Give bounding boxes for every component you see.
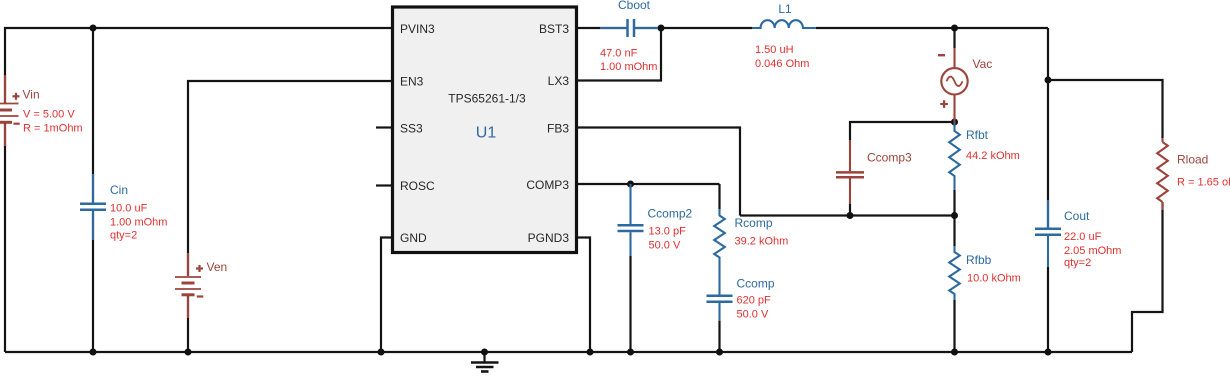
svg-text:39.2 kOhm: 39.2 kOhm: [735, 236, 789, 248]
svg-text:ROSC: ROSC: [400, 179, 435, 193]
svg-text:Ven: Ven: [207, 260, 228, 274]
svg-text:PVIN3: PVIN3: [400, 22, 435, 36]
svg-text:47.0 nF: 47.0 nF: [600, 48, 638, 60]
svg-text:COMP3: COMP3: [526, 178, 569, 192]
svg-text:620 pF: 620 pF: [737, 295, 772, 307]
svg-text:2.05 mOhm: 2.05 mOhm: [1064, 245, 1121, 257]
svg-text:EN3: EN3: [400, 75, 424, 89]
svg-text:10.0 kOhm: 10.0 kOhm: [967, 273, 1021, 285]
svg-text:Ccomp: Ccomp: [737, 277, 775, 291]
svg-text:22.0 uF: 22.0 uF: [1064, 231, 1102, 243]
svg-text:10.0 uF: 10.0 uF: [110, 203, 148, 215]
svg-text:Cboot: Cboot: [618, 0, 651, 12]
svg-text:50.0 V: 50.0 V: [737, 309, 769, 321]
svg-text:1.50 uH: 1.50 uH: [755, 44, 794, 56]
svg-text:LX3: LX3: [548, 74, 570, 88]
svg-text:BST3: BST3: [539, 22, 569, 36]
svg-text:44.2 kOhm: 44.2 kOhm: [966, 150, 1020, 162]
svg-text:R = 1.65 ohm: R = 1.65 ohm: [1177, 177, 1230, 189]
svg-text:FB3: FB3: [547, 122, 569, 136]
svg-text:Rload: Rload: [1177, 153, 1208, 167]
svg-text:Cout: Cout: [1064, 209, 1090, 223]
svg-text:L1: L1: [778, 2, 792, 16]
svg-text:V = 5.00 V: V = 5.00 V: [23, 109, 75, 121]
svg-text:Rcomp: Rcomp: [735, 216, 773, 230]
svg-text:Rfbb: Rfbb: [966, 253, 992, 267]
svg-text:50.0 V: 50.0 V: [649, 240, 681, 252]
svg-text:Rfbt: Rfbt: [966, 128, 989, 142]
svg-text:Cin: Cin: [110, 183, 128, 197]
svg-text:13.0 pF: 13.0 pF: [649, 226, 687, 238]
svg-text:qty=2: qty=2: [110, 230, 137, 242]
svg-text:qty=2: qty=2: [1064, 257, 1091, 269]
svg-text:TPS65261-1/3: TPS65261-1/3: [448, 92, 526, 106]
svg-text:0.046 Ohm: 0.046 Ohm: [755, 58, 809, 70]
svg-text:Ccomp3: Ccomp3: [867, 151, 912, 165]
svg-text:Vin: Vin: [23, 88, 40, 102]
svg-text:SS3: SS3: [400, 122, 423, 136]
svg-text:1.00 mOhm: 1.00 mOhm: [110, 217, 167, 229]
svg-text:1.00 mOhm: 1.00 mOhm: [600, 61, 657, 73]
svg-text:GND: GND: [400, 231, 427, 245]
svg-text:R = 1mOhm: R = 1mOhm: [23, 123, 83, 135]
svg-text:Vac: Vac: [973, 57, 993, 71]
svg-text:PGND3: PGND3: [528, 231, 570, 245]
svg-text:Ccomp2: Ccomp2: [648, 207, 693, 221]
svg-text:U1: U1: [476, 125, 497, 142]
